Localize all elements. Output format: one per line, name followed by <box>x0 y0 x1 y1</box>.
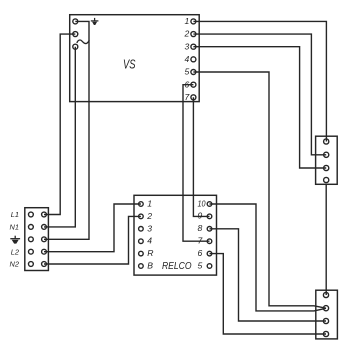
VS left pin 2 <box>73 32 78 37</box>
svg-text:3: 3 <box>185 41 190 51</box>
RELCO pin 8 <box>207 227 212 232</box>
X3 terminal d <box>323 331 328 336</box>
RELCO pin B <box>139 264 144 269</box>
VS right pin 7 <box>191 95 196 100</box>
VS left pin 3 <box>73 44 78 49</box>
X1 terminal L1 right <box>42 212 47 217</box>
wire VS pin6 to RELCO pin7 <box>183 85 210 242</box>
wire VS left pin3 to terminal N1 <box>44 47 75 227</box>
svg-text:6: 6 <box>198 248 203 258</box>
svg-text:5: 5 <box>185 67 190 77</box>
svg-text:L1: L1 <box>11 210 19 219</box>
wire terminal L2 to RELCO pin1 <box>44 204 141 252</box>
X3 terminal a <box>323 292 328 297</box>
X1 terminal N1 left <box>29 225 34 230</box>
AC tilde symbol <box>77 40 89 44</box>
RELCO pin R <box>139 251 144 256</box>
wire VS left pin1 to earth terminal <box>44 21 89 239</box>
RELCO pin 10 <box>207 202 212 207</box>
X1 terminal N2 left <box>29 262 34 267</box>
X3 terminal c <box>323 318 328 323</box>
RELCO pin 4 <box>139 239 144 244</box>
wire RELCO pin6 to X3 terminal d <box>210 254 327 334</box>
svg-text:N2: N2 <box>10 260 19 269</box>
X1 terminal L1 left <box>29 212 34 217</box>
VS right pin 6 <box>191 82 196 87</box>
RELCO pin 3 <box>139 227 144 232</box>
X1 terminal L2 left <box>29 249 34 254</box>
earth symbol label at terminal block X1 <box>10 236 20 244</box>
svg-text:7: 7 <box>185 92 191 102</box>
svg-text:1: 1 <box>147 199 152 209</box>
RELCO pin 1 <box>139 202 144 207</box>
VS right pin 4 <box>191 57 196 62</box>
wire VS pin7 to RELCO pin9 <box>193 97 209 216</box>
X1 terminal N2 right <box>42 262 47 267</box>
VS right pin 5 <box>191 70 196 75</box>
X2 terminal b <box>324 152 329 157</box>
terminal block X1 (mains, left) <box>25 208 49 271</box>
terminal block X3 (lower right) <box>316 290 338 339</box>
terminal block X2 (upper right) <box>316 136 338 184</box>
RELCO module box <box>134 195 217 275</box>
module VS box <box>70 15 200 102</box>
X2 terminal a <box>324 139 329 144</box>
svg-text:1: 1 <box>185 16 190 26</box>
VS left pin 1 <box>73 19 78 24</box>
wire X2 terminal d to X3 terminal a <box>325 184 327 295</box>
wire terminal N2 to RELCO pin2 <box>44 216 141 264</box>
RELCO pin 9 <box>207 214 212 219</box>
VS right pin 2 <box>191 32 196 37</box>
wire VS pin5 to X3 terminal b <box>193 72 326 308</box>
X2 terminal d <box>324 177 329 182</box>
svg-text:8: 8 <box>198 223 203 233</box>
X2 terminal c <box>324 165 329 170</box>
RELCO pin 6 <box>207 251 212 256</box>
RELCO pin 2 <box>139 214 144 219</box>
wire VS left pin2 to terminal L1 <box>44 34 75 214</box>
earth symbol at VS pin1 <box>91 18 99 25</box>
X3 terminal b <box>323 306 328 311</box>
svg-text:N1: N1 <box>10 223 19 232</box>
svg-text:3: 3 <box>147 223 152 233</box>
svg-text:VS: VS <box>123 56 136 71</box>
svg-text:4: 4 <box>185 54 190 64</box>
wire VS pin3 to X2 terminal c <box>193 47 326 168</box>
X1 terminal N1 right <box>42 225 47 230</box>
svg-text:RELCO: RELCO <box>162 261 192 272</box>
X1 terminal earth right <box>42 237 47 242</box>
VS right pin 1 <box>191 19 196 24</box>
wire VS pin2 to X2 terminal b <box>193 34 326 155</box>
VS right pin 3 <box>191 44 196 49</box>
svg-text:2: 2 <box>184 29 190 39</box>
svg-text:2: 2 <box>146 211 152 221</box>
svg-text:L2: L2 <box>11 247 19 256</box>
RELCO pin 7 <box>207 239 212 244</box>
svg-text:B: B <box>147 261 153 271</box>
wire RELCO pin8 to X3 terminal c <box>210 229 327 321</box>
svg-text:R: R <box>147 248 153 258</box>
X1 terminal earth left <box>29 237 34 242</box>
wire RELCO pin10 to X3 terminal b <box>210 204 327 311</box>
svg-text:10: 10 <box>198 198 206 208</box>
RELCO pin 5 <box>207 264 212 269</box>
svg-text:4: 4 <box>147 236 152 246</box>
svg-text:5: 5 <box>198 260 203 270</box>
X1 terminal L2 right <box>42 249 47 254</box>
wire VS pin1 to X2 terminal a <box>193 21 326 141</box>
